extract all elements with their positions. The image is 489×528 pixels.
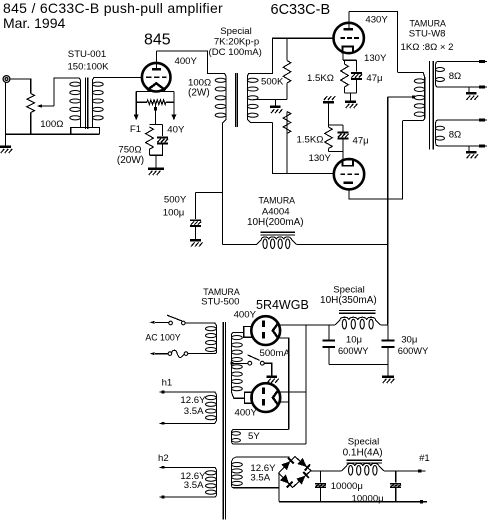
h1 bottom lead dot	[162, 422, 165, 425]
grid center ground stem	[275, 100, 277, 106]
svg-text:10000μ: 10000μ	[331, 481, 363, 492]
svg-text:845 / 6C33C-B push-pull amplif: 845 / 6C33C-B push-pull amplifier	[3, 0, 223, 16]
svg-text:8Ω: 8Ω	[449, 71, 462, 82]
svg-text:500K: 500K	[261, 76, 284, 87]
wire upper secondary top to terminal	[438, 60, 479, 62]
transformer T1 core	[85, 78, 87, 130]
V3 cathode box	[343, 160, 354, 166]
V3 cathode lead	[342, 151, 344, 159]
845 grid dashes	[146, 76, 152, 78]
svg-text:Special: Special	[220, 26, 251, 37]
wire secondary bottom to lower grid line	[272, 123, 333, 174]
svg-text:130Y: 130Y	[364, 53, 387, 64]
V4 plate chevron	[273, 324, 278, 338]
cap 100u 500V	[195, 193, 197, 220]
svg-text:47μ: 47μ	[366, 73, 382, 84]
tube V5 5R4WGB lower	[251, 383, 280, 412]
choke L2 350mA core	[339, 309, 375, 311]
wire 5V bottom lead	[240, 443, 306, 445]
ground input	[0, 145, 11, 148]
V5 lower lead	[280, 401, 289, 403]
bridge diode lower-left	[280, 475, 289, 484]
ground HV center tap	[266, 375, 277, 378]
svg-text:0.1H(4A): 0.1H(4A)	[343, 447, 383, 458]
svg-text:47μ: 47μ	[353, 136, 369, 147]
cathode resistor 1.5K upper	[344, 60, 346, 64]
terminal DC+	[418, 469, 421, 472]
svg-text:500mA: 500mA	[260, 348, 291, 359]
svg-text:10H(350mA): 10H(350mA)	[320, 295, 377, 306]
wire jack to pot	[10, 79, 31, 93]
cap 10000u second	[395, 471, 397, 482]
V4 lower lead	[280, 338, 289, 430]
bridge left vertex drop	[278, 473, 280, 502]
svg-text:(DC 100mA): (DC 100mA)	[209, 47, 262, 58]
svg-text:100μ: 100μ	[163, 208, 185, 219]
wire 500V node to cap	[196, 192, 223, 194]
transformer T1 STU-001 primary	[75, 78, 81, 80]
V3 plate bar	[344, 182, 353, 185]
h1 top lead dot	[162, 391, 165, 394]
tube V4 5R4WGB upper	[251, 316, 280, 345]
svg-text:6C33C-B: 6C33C-B	[271, 2, 331, 18]
ground lower secondary	[466, 151, 477, 154]
cathode ground stem	[155, 155, 157, 167]
terminal upper secondary hot	[479, 60, 485, 63]
svg-text:Special: Special	[333, 284, 364, 295]
fuse 500mA contacts	[248, 361, 252, 365]
845 filament frame right leg	[173, 92, 175, 115]
svg-text:8Ω: 8Ω	[449, 130, 462, 141]
bridge diode upper-left	[281, 461, 290, 470]
svg-text:h1: h1	[162, 378, 173, 389]
PSU T4 core	[222, 322, 224, 520]
svg-text:AC 100Y: AC 100Y	[145, 332, 180, 342]
845 filament frame bar	[136, 91, 174, 93]
5V winding	[232, 430, 235, 432]
interstage T2 primary	[221, 74, 226, 77]
tube V2 6C33C-B upper	[334, 23, 364, 53]
upper secondary ground stem	[468, 87, 470, 92]
svg-text:150:100K: 150:100K	[67, 61, 109, 72]
wire V2 plate to OPT	[349, 11, 398, 72]
AC input arrow bottom	[150, 352, 155, 355]
AC input arrow top	[150, 321, 155, 324]
choke L2 Special 10H 350mA	[335, 320, 340, 325]
svg-text:(20W): (20W)	[117, 155, 144, 166]
hum pot center tap stem	[155, 105, 157, 125]
cathode RC top rail	[150, 123, 163, 125]
wire 845 plate to interstage	[156, 51, 221, 74]
svg-text:30μ: 30μ	[401, 335, 417, 346]
svg-text:3.5A: 3.5A	[184, 406, 204, 417]
choke L3 0.1H core	[347, 459, 383, 461]
svg-text:5R4WGB: 5R4WGB	[256, 298, 309, 312]
B+ rail left of choke	[223, 244, 257, 246]
h2 bottom lead dot	[162, 496, 165, 499]
svg-text:100Ω: 100Ω	[40, 119, 63, 130]
svg-text:40Y: 40Y	[167, 125, 185, 136]
transformer T1 secondary	[92, 78, 97, 81]
B+ riser OPT tap to PSU	[387, 97, 389, 325]
wire lower secondary bottom	[438, 145, 479, 147]
bridge diode upper-right	[297, 458, 306, 467]
V3 grid dashes	[341, 173, 346, 175]
svg-text:3.5A: 3.5A	[250, 473, 270, 484]
svg-text:F1: F1	[130, 124, 141, 135]
V5 upper lead to B+ drop	[280, 391, 306, 393]
fuse F bottom wavy element	[172, 350, 185, 357]
interstage T2 secondary	[247, 73, 252, 76]
OPT center tap wire	[388, 96, 414, 98]
svg-text:TAMURA: TAMURA	[203, 287, 240, 297]
svg-text:TAMURA: TAMURA	[259, 195, 296, 205]
cap 30u 600WV	[387, 325, 389, 340]
filter ground stem	[387, 365, 389, 376]
wire jack ground stem	[4, 82, 6, 145]
svg-text:10000μ: 10000μ	[352, 494, 384, 505]
V2 cathode lead	[342, 53, 344, 61]
DC- rail	[279, 501, 422, 503]
V5 plate chevron	[273, 391, 278, 405]
lower secondary ground stem	[468, 146, 470, 151]
AC bottom lead	[155, 353, 168, 355]
cathode resistor 750ohm 20W	[146, 127, 154, 149]
terminal upper secondary cold	[479, 86, 485, 89]
wire switch to primary top	[185, 322, 208, 324]
845 cathode V	[147, 83, 166, 90]
bridge rectifier diamond	[279, 457, 311, 488]
wire lower secondary top to terminal	[438, 119, 479, 121]
HV center tap dot	[231, 362, 234, 365]
svg-text:400Y: 400Y	[175, 56, 198, 67]
ground 100u cap	[190, 239, 201, 242]
B+ rail right of choke	[297, 244, 388, 246]
ground 845 cathode	[148, 167, 164, 170]
hum balance resistor 100ohm 2W	[147, 100, 166, 105]
wire secondary top to top grid line	[252, 38, 333, 73]
ground V2 cathode	[345, 100, 356, 103]
ground lower cathode network (inverted)	[323, 101, 334, 104]
switch S1a blade	[167, 315, 182, 321]
wire fuse to primary bottom	[188, 353, 208, 355]
OPT core	[429, 61, 431, 150]
HV center tap wire	[232, 362, 248, 364]
lower network stem	[328, 104, 330, 125]
grid center tap line	[253, 99, 287, 101]
switch S1a contacts	[169, 321, 173, 325]
cathode bypass cap	[161, 124, 163, 136]
svg-text:Mar. 1994: Mar. 1994	[3, 15, 65, 31]
terminal lower secondary cold	[479, 144, 485, 147]
845 filament frame left leg	[135, 92, 137, 115]
svg-text:845: 845	[144, 32, 171, 49]
V2 cathode RC top rail	[343, 59, 357, 61]
cap 10000u first	[320, 471, 322, 482]
cap 10u 600WV	[328, 325, 330, 340]
svg-text:7K:20Kp-p: 7K:20Kp-p	[214, 37, 259, 48]
grid resistor upper 500K	[286, 38, 288, 60]
fuse 500mA blade	[248, 355, 260, 360]
svg-text:STU-500: STU-500	[201, 297, 239, 308]
ground main filter	[382, 375, 394, 378]
svg-text:1.5KΩ: 1.5KΩ	[297, 135, 324, 146]
svg-text:750Ω: 750Ω	[118, 145, 141, 156]
arrow to F1	[134, 115, 139, 121]
12.6V bridge winding	[232, 457, 237, 462]
svg-text:600WY: 600WY	[338, 346, 369, 356]
DC+ rail	[311, 470, 342, 472]
wire winding to bridge AC1	[236, 456, 290, 458]
svg-text:STU-W8: STU-W8	[409, 29, 446, 40]
svg-text:#1: #1	[419, 453, 430, 464]
lower RC top rail	[329, 124, 344, 126]
wire secondary to 845 grid	[98, 77, 142, 79]
svg-text:12.6Y: 12.6Y	[180, 395, 206, 406]
V4 output lead to B+	[280, 324, 335, 326]
lower RC bottom rail	[329, 150, 344, 152]
cathode cap 47u lower	[342, 125, 344, 132]
OPT center tap dot	[412, 96, 415, 99]
wire HV top to rectifier box	[234, 331, 244, 333]
845 plate bar	[152, 68, 161, 71]
V4 anode box	[244, 327, 252, 338]
svg-text:430Y: 430Y	[365, 15, 388, 26]
h1 winding 12.6V	[160, 392, 217, 394]
PSU T4 primary	[208, 323, 216, 325]
potentiometer VR1 100ohm	[27, 93, 35, 112]
V2 cathode RC bottom rail	[345, 92, 357, 94]
svg-text:STU-001: STU-001	[68, 49, 106, 60]
svg-text:5Y: 5Y	[248, 431, 260, 442]
svg-text:h2: h2	[158, 453, 169, 464]
tube V1 845	[142, 63, 171, 92]
filter bottom rail	[329, 364, 388, 366]
svg-text:A4004: A4004	[262, 206, 290, 217]
bridge diode lower-right	[296, 476, 305, 485]
V4 filament bars	[262, 320, 265, 327]
DC+ rail right	[384, 470, 420, 472]
wire upper secondary bottom	[438, 86, 479, 88]
cathode resistor 1.5K lower	[328, 125, 330, 127]
wire wiper to transformer primary	[54, 78, 75, 106]
V5 filament bars	[262, 387, 265, 394]
svg-text:400Y: 400Y	[234, 309, 257, 320]
terminal lower secondary hot	[479, 119, 485, 122]
PSU HV winding 400-0-400	[232, 332, 235, 334]
svg-text:130Y: 130Y	[309, 153, 332, 164]
OPT secondary upper	[436, 61, 439, 64]
B+ drop to 5V winding bottom	[305, 325, 307, 444]
svg-text:1.5KΩ: 1.5KΩ	[307, 73, 334, 84]
svg-text:600WY: 600WY	[398, 346, 429, 356]
interstage T2 core	[235, 73, 237, 127]
svg-text:10μ: 10μ	[346, 335, 362, 346]
h2 top lead dot	[162, 466, 165, 469]
ground upper secondary	[466, 92, 477, 95]
B+ rail to riser	[381, 324, 389, 326]
wire winding to bridge AC2	[240, 487, 279, 489]
terminal DC-	[420, 500, 423, 503]
grid resistor lower 500K	[286, 112, 288, 134]
cathode RC bottom rail	[150, 154, 163, 156]
svg-text:Special: Special	[348, 437, 379, 448]
svg-text:500Y: 500Y	[164, 194, 187, 205]
V2 cathode ground stem	[350, 93, 352, 100]
svg-text:10H(200mA): 10H(200mA)	[247, 217, 304, 228]
AC top lead	[155, 321, 169, 323]
V2 plate lead	[348, 11, 350, 28]
arrow to 40V	[172, 115, 177, 121]
ground grid center	[270, 106, 281, 109]
wire fuse to ground	[264, 363, 272, 375]
svg-text:3.5A: 3.5A	[184, 480, 204, 491]
svg-text:TAMURA: TAMURA	[409, 19, 446, 29]
V2 plate bar	[344, 28, 353, 31]
OPT secondary lower	[436, 120, 439, 123]
choke L1 A4004 core	[260, 231, 295, 233]
wire V3 plate to OPT primary bottom	[349, 121, 403, 199]
choke L3 Special 0.1H 4A	[342, 466, 347, 471]
V2 grid dashes	[340, 37, 345, 39]
cathode cap 47u upper	[356, 60, 358, 71]
V2 cathode box	[343, 47, 354, 53]
wire pot bottom to ground rail	[30, 113, 32, 135]
choke L1 A4004 winding	[256, 240, 261, 245]
845 plate lead	[155, 51, 157, 68]
V5 anode box	[245, 392, 253, 403]
svg-text:400Y: 400Y	[235, 407, 258, 418]
input jack J1	[3, 76, 10, 83]
fuse F bottom contacts	[168, 352, 172, 356]
svg-text:(2W): (2W)	[188, 88, 210, 99]
h2 winding 12.6V	[159, 467, 216, 469]
OPT T3 primary	[398, 72, 425, 76]
junction dot center tap	[154, 107, 157, 110]
wire 5V top lead	[234, 429, 289, 431]
svg-text:1KΩ :8Ω × 2: 1KΩ :8Ω × 2	[401, 42, 454, 53]
tube V3 6C33C-B lower	[334, 159, 364, 189]
ground rail input stage	[5, 133, 99, 135]
pot wiper arrow	[37, 104, 42, 107]
